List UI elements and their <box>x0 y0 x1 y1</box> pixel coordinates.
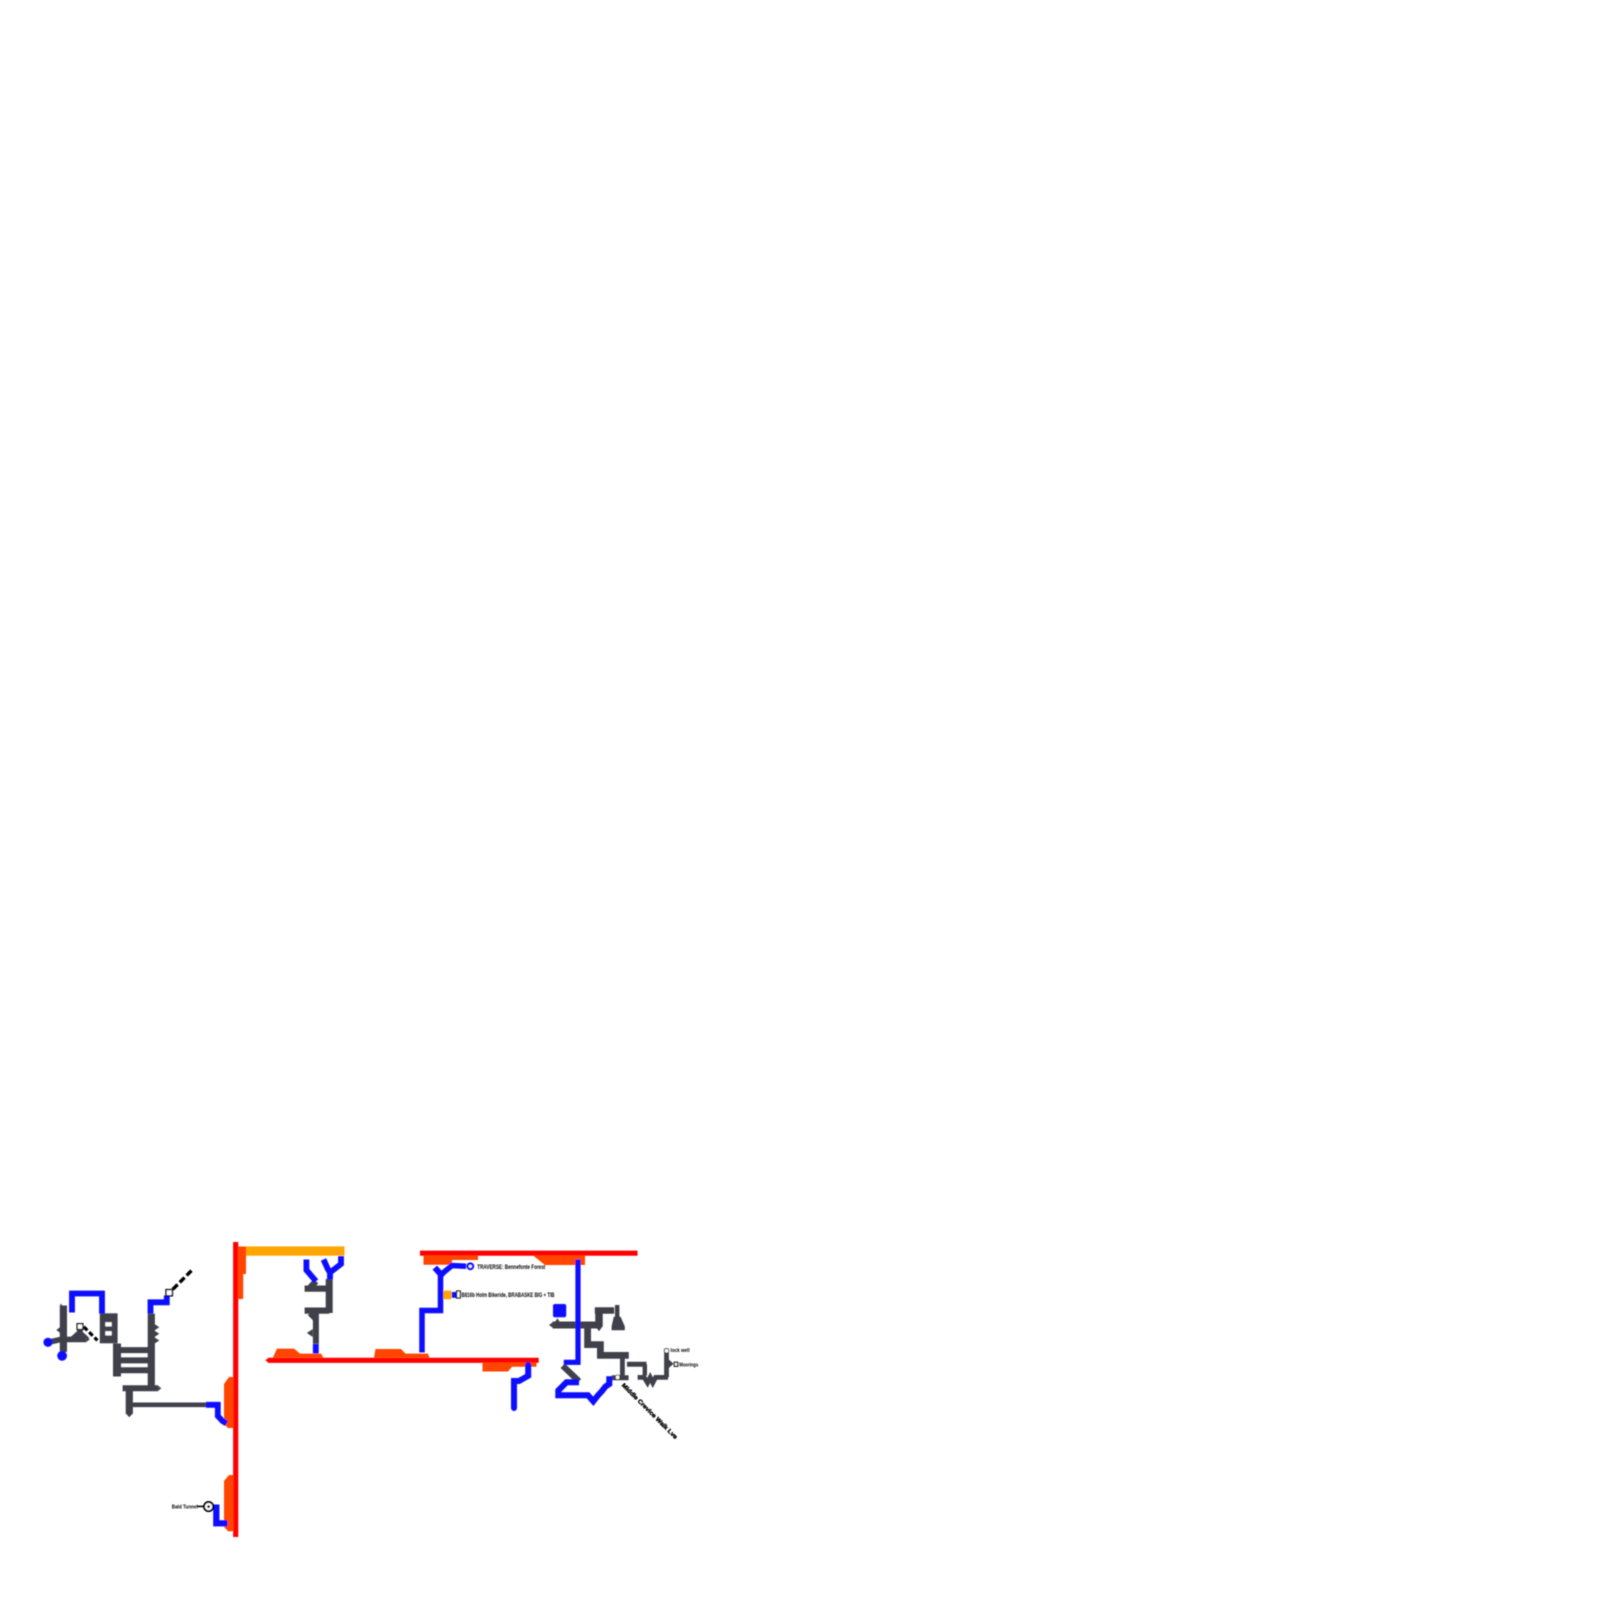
gray center peak diagonal <box>310 1281 316 1287</box>
gray zigzag W <box>638 1377 668 1382</box>
svg-text:Moorings: Moorings <box>679 1362 698 1368</box>
gray tooth far left <box>56 1327 60 1333</box>
blue dot endpoint 2 <box>57 1351 67 1361</box>
blue hook at tunnel circle <box>216 1505 227 1524</box>
gray center vertical2 <box>313 1313 319 1344</box>
svg-text:lock well: lock well <box>671 1348 690 1354</box>
blue fork right under amber bar <box>330 1256 341 1280</box>
gray bottom band <box>123 1385 159 1391</box>
gray peak under blue square <box>553 1318 562 1325</box>
blue donut marker traverse <box>466 1262 474 1270</box>
gray big steps left rail <box>113 1344 121 1377</box>
gray icon leg <box>77 1330 83 1339</box>
blue squiggle route bottom middle <box>558 1376 609 1401</box>
svg-text:B816b Holm Bikeride, BRABASKE: B816b Holm Bikeride, BRABASKE BIG + TIB <box>462 1293 555 1299</box>
gray band mid <box>627 1362 647 1367</box>
gray upper right band <box>595 1307 614 1313</box>
dashed rotated label upper-left <box>173 1270 193 1290</box>
gray V2 vertical <box>148 1314 155 1386</box>
gray arrow to moorings <box>669 1359 674 1368</box>
road vertical main (red) <box>233 1242 238 1537</box>
gray right cluster staircase <box>588 1325 629 1355</box>
icon small white circle lower <box>615 1375 620 1380</box>
svg-text:Bald Tunnel: Bald Tunnel <box>172 1505 198 1511</box>
amber track bar <box>246 1246 345 1255</box>
gray V2 teeth <box>154 1323 160 1331</box>
icon tunnel double circle <box>204 1502 213 1511</box>
gray vertical to lower band <box>620 1358 625 1378</box>
dashed rotated label left <box>84 1327 98 1341</box>
blue stub to guidepost <box>452 1292 457 1298</box>
gray wide leg <box>595 1313 603 1327</box>
orange patch above lower road left <box>273 1349 324 1358</box>
gray leg down <box>126 1388 133 1414</box>
gray center diag stub <box>310 1313 315 1318</box>
blue hook below lower road <box>514 1365 528 1408</box>
blue fork stub <box>324 1260 331 1273</box>
blue link to icon upper-left <box>151 1296 167 1314</box>
svg-text:TRAVERSE: Bennefonte Forest: TRAVERSE: Bennefonte Forest <box>477 1265 545 1271</box>
gray vertical far left <box>60 1306 67 1353</box>
orange patch above lower road right <box>374 1349 430 1358</box>
blue route with traverse marker <box>422 1266 466 1353</box>
blue stub center column <box>313 1344 319 1354</box>
blue long vertical route <box>564 1260 578 1363</box>
blue square marker <box>553 1304 566 1317</box>
blue staple route left <box>72 1294 102 1314</box>
gray bar far left <box>50 1339 87 1342</box>
gray spur up right <box>615 1305 619 1318</box>
gray big steps rungs <box>117 1347 151 1353</box>
gray flag blob <box>612 1317 625 1330</box>
amber square marker <box>443 1291 452 1300</box>
leader line tunnel <box>198 1505 204 1507</box>
road upper horizontal (red) <box>420 1251 638 1256</box>
icon guidepost mid <box>457 1291 461 1298</box>
orange strip left of red vertical mid <box>224 1377 233 1428</box>
orange patch right of red vertical top <box>238 1247 246 1300</box>
icon small white circle tower <box>664 1349 669 1354</box>
gray right cluster horizontal <box>553 1322 597 1329</box>
icon guidepost moorings <box>674 1362 677 1366</box>
gray center vertical <box>326 1279 333 1313</box>
orange patch under upper road left <box>424 1256 479 1265</box>
gray lower band circle <box>612 1375 629 1380</box>
gray vertical mid <box>643 1364 647 1375</box>
orange patch under upper road right <box>533 1256 585 1266</box>
blue fork spur <box>435 1268 441 1274</box>
road lower horizontal (red) <box>268 1358 539 1363</box>
blue hook from gray line to orange strip <box>206 1405 227 1424</box>
orange patch below lower road <box>483 1363 537 1372</box>
gray center band1 <box>305 1285 329 1291</box>
gray peak under icon <box>70 1329 90 1338</box>
gray center tooth <box>307 1329 313 1337</box>
orange strip left of red vertical bottom <box>224 1475 233 1532</box>
gray tower <box>664 1349 669 1378</box>
gray mini steps <box>100 1313 118 1343</box>
icon white square left <box>77 1324 83 1330</box>
gray thin long line <box>133 1403 206 1408</box>
gray center band2 <box>305 1307 330 1313</box>
label rotated walkway <box>620 1383 678 1441</box>
blue prong left under amber bar <box>306 1260 316 1282</box>
icon white square upper-left <box>166 1290 172 1296</box>
gray diagonal crossing <box>563 1366 579 1382</box>
blue dot endpoint 1 <box>43 1338 52 1347</box>
